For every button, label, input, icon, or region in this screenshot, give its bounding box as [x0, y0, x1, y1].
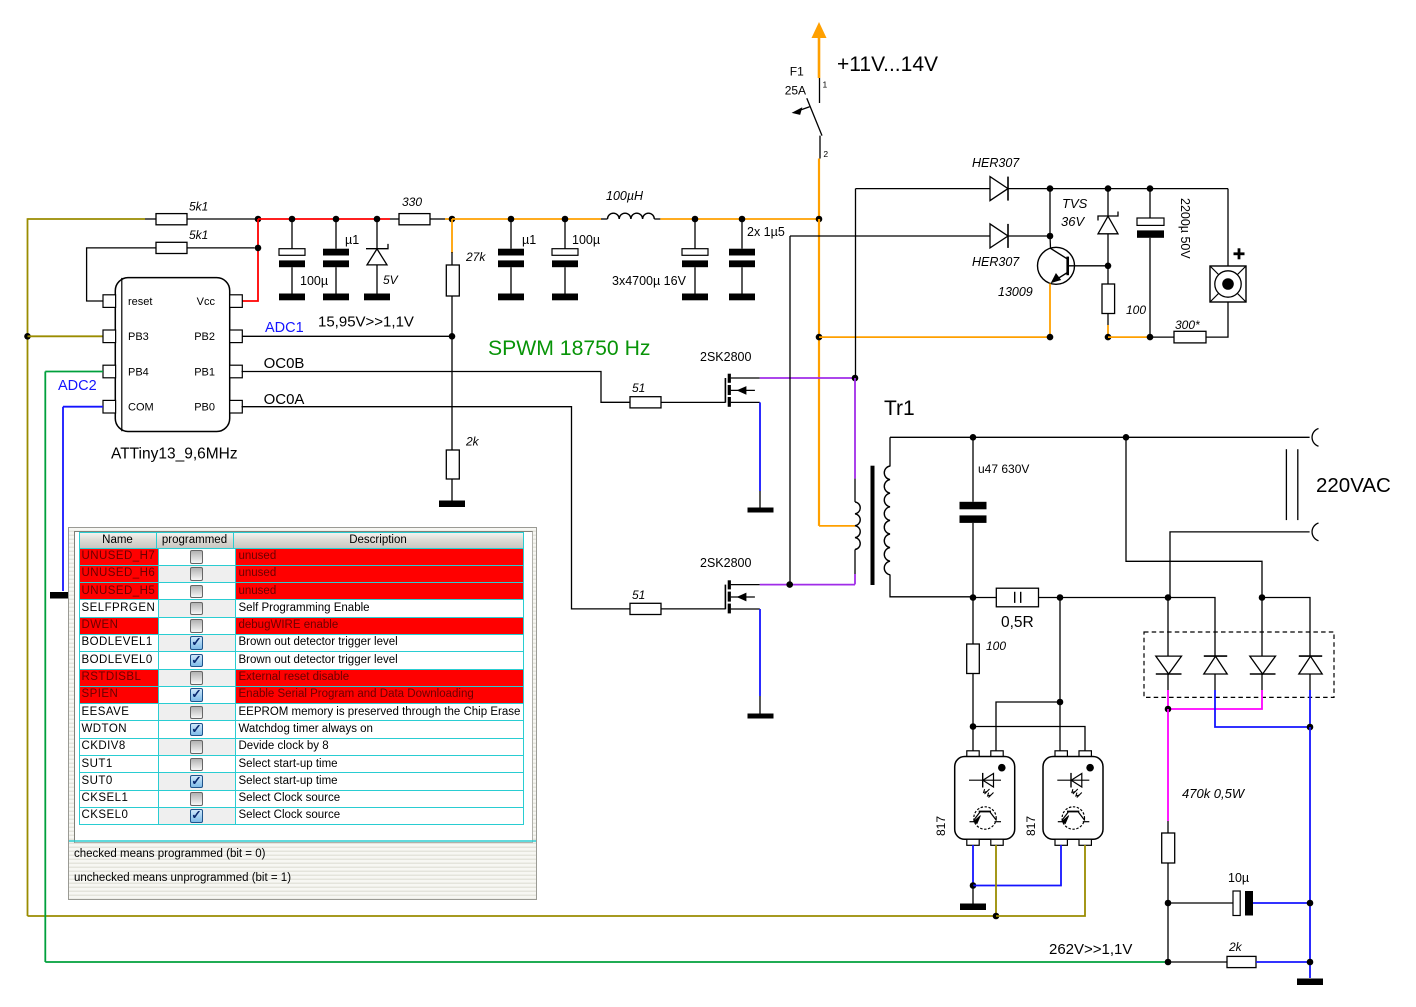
- wire lead into R1: [145, 218, 156, 220]
- terminal output plus: [1210, 266, 1246, 302]
- wire to shunt: [973, 597, 996, 599]
- wire R2 right lead: [187, 247, 255, 249]
- wire Q2 source to ground: [759, 696, 761, 714]
- wire R1 to node V15: [187, 218, 258, 220]
- node emitter rail junction: [1047, 334, 1054, 341]
- pin PB2 of U1: [230, 330, 243, 343]
- resistor R12 470k: [1162, 833, 1175, 863]
- svg-text:25A: 25A: [785, 84, 806, 98]
- wire R2 left lead to reset pin: [87, 248, 156, 301]
- wire opto node to U2 pin1: [972, 727, 974, 751]
- resistor R8 100: [1102, 284, 1115, 314]
- IC U1 ATTiny13 body: [115, 278, 229, 432]
- transistor Q1 2SK2800: [725, 374, 759, 407]
- node opto ground junction: [970, 882, 977, 889]
- svg-text:2x 1µ5: 2x 1µ5: [747, 225, 785, 239]
- node DC plus junction: [1165, 706, 1172, 713]
- ground below COM: [50, 592, 76, 599]
- svg-text:220VAC: 220VAC: [1316, 474, 1391, 497]
- node opto LED junction: [970, 723, 977, 730]
- wire blue R13 to minus bus: [1256, 961, 1310, 963]
- svg-text:ADC2: ADC2: [58, 378, 97, 394]
- wire purple Q1 drain: [760, 377, 855, 379]
- resistor R11 100: [967, 644, 980, 674]
- switch F1 25A: [793, 78, 822, 159]
- wire bottom row to D2: [790, 235, 990, 237]
- svg-text:100µ: 100µ: [572, 233, 600, 247]
- wire red vertical to Vcc: [242, 219, 259, 301]
- wire orange F1 to rail: [818, 159, 820, 220]
- svg-text:PB1: PB1: [194, 366, 215, 378]
- svg-text:817: 817: [1024, 816, 1038, 836]
- wire down to U3 pin1: [1059, 702, 1061, 751]
- pin PB0 of U1: [230, 400, 243, 413]
- ground below Q2: [748, 714, 774, 719]
- node shunt left junction: [970, 594, 977, 601]
- wire orange node A down to R4: [451, 219, 453, 253]
- wire olive vertical left bus: [27, 218, 29, 916]
- wire R4 to node ADC1: [451, 296, 453, 336]
- pin Vcc of U1: [230, 295, 243, 308]
- wire bridge top net right: [1168, 598, 1215, 657]
- node junction C3: [508, 216, 515, 223]
- svg-text:330: 330: [402, 195, 422, 209]
- wire ADC1 from PB2: [242, 335, 453, 337]
- wire into R3 330: [390, 218, 399, 220]
- wire battery rail to terminal: [1227, 189, 1229, 266]
- svg-text:51: 51: [632, 381, 645, 395]
- svg-text:2SK2800: 2SK2800: [700, 350, 751, 364]
- zener TVS 36V: [1098, 212, 1118, 266]
- wire AC2 from connector: [1170, 532, 1310, 598]
- node C junction: [1057, 594, 1064, 601]
- capacitor C9 10u: [1168, 891, 1253, 916]
- wire secondary top rail: [890, 436, 1310, 438]
- inductor L1 100uH: [608, 213, 655, 219]
- plug prongs 220VAC: [1286, 449, 1297, 520]
- label plus of terminal: [1234, 248, 1245, 259]
- resistor R5 2k: [446, 450, 459, 479]
- node junction C2: [333, 216, 340, 223]
- node junction zener: [374, 216, 381, 223]
- svg-text:470k 0,5W: 470k 0,5W: [1182, 786, 1246, 801]
- wire cross link to U2 anode: [996, 702, 1060, 751]
- capacitor C2 u1: [323, 219, 349, 300]
- node C9 minus junction: [1307, 900, 1314, 907]
- svg-text:TVS: TVS: [1062, 196, 1088, 211]
- wire AC1 to bridge: [1261, 598, 1263, 657]
- node junction C4: [562, 216, 569, 223]
- node D1/TVS junction: [1047, 185, 1054, 192]
- svg-text:262V>>1,1V: 262V>>1,1V: [1049, 941, 1132, 958]
- node C7 bottom junction: [1147, 334, 1154, 341]
- wire primary top lead: [854, 479, 856, 502]
- wire green left vertical: [44, 372, 46, 963]
- node bridge AC2 junction: [1165, 594, 1172, 601]
- svg-text:10µ: 10µ: [1228, 871, 1249, 885]
- svg-text:µ1: µ1: [522, 233, 536, 247]
- wire blue from COM pin: [63, 406, 103, 408]
- wire purple primary to Q2 drain: [854, 574, 856, 584]
- svg-text:ADC1: ADC1: [265, 320, 304, 336]
- wire blue D9 down: [1309, 690, 1311, 727]
- svg-text:5V: 5V: [383, 273, 399, 287]
- resistor R10 0,5R shunt: [996, 588, 1038, 607]
- svg-text:5k1: 5k1: [189, 228, 208, 242]
- wire bridge AC1 to D9: [1262, 598, 1310, 657]
- svg-text:5k1: 5k1: [189, 200, 208, 214]
- connector AC top: [1312, 429, 1318, 447]
- pin reset of U1: [103, 295, 116, 308]
- transformer Tr1 primary winding: [855, 502, 860, 550]
- core of Tr1: [871, 466, 875, 585]
- svg-text:2k: 2k: [465, 435, 480, 449]
- svg-text:13009: 13009: [998, 285, 1033, 299]
- wire magenta D6 cathode: [1167, 690, 1169, 709]
- wire olive link to U3: [996, 845, 1085, 916]
- wire orange supply rail: [452, 218, 601, 220]
- node PB3 junction on olive bus: [24, 333, 31, 340]
- svg-text:2k: 2k: [1228, 940, 1243, 954]
- svg-text:u47 630V: u47 630V: [978, 462, 1029, 476]
- node B junction: [1105, 263, 1112, 270]
- node A junction: [449, 216, 456, 223]
- diode D8: [1250, 656, 1276, 690]
- svg-text:15,95V>>1,1V: 15,95V>>1,1V: [318, 314, 414, 331]
- wire magenta D8 link: [1168, 690, 1262, 709]
- svg-text:reset: reset: [128, 296, 152, 308]
- svg-text:COM: COM: [128, 402, 154, 414]
- wire node D to node E: [1167, 903, 1169, 962]
- node junction C1: [289, 216, 296, 223]
- resistor R6 51: [630, 397, 661, 408]
- node Q2 drain junction: [786, 581, 793, 588]
- resistor R1 5k1: [156, 214, 187, 225]
- svg-text:µ1: µ1: [345, 233, 359, 247]
- wire top row to D1: [856, 188, 991, 190]
- wire olive bottom run to optocouplers: [28, 915, 997, 917]
- wire olive U2 collector down: [995, 845, 997, 916]
- node R8 rail junction: [1105, 334, 1112, 341]
- svg-text:+11V...14V: +11V...14V: [837, 53, 938, 76]
- node Q3 collector junction: [1047, 233, 1054, 240]
- node cap rail junction: [1147, 185, 1154, 192]
- wire opto ground stub: [972, 886, 974, 904]
- wire orange rail to 300R: [1108, 336, 1150, 338]
- bridge dashed box: [1144, 632, 1334, 697]
- node V15 junction: [255, 216, 262, 223]
- diode D7: [1204, 656, 1227, 690]
- svg-text:1: 1: [823, 80, 828, 90]
- wire purple Q1 drain to primary: [854, 378, 856, 479]
- resistor R9 300*: [1174, 331, 1206, 343]
- svg-text:100µ: 100µ: [300, 274, 328, 288]
- wire blue opto link: [973, 845, 1061, 886]
- wire AC2 to D6: [1167, 598, 1169, 657]
- transformer Tr1 secondary winding: [884, 466, 890, 575]
- optocoupler U2 817: [955, 751, 1015, 846]
- wire R9 to output terminal: [1206, 302, 1228, 337]
- wire green from PB4 pin: [45, 371, 103, 373]
- svg-text:0,5R: 0,5R: [1001, 614, 1034, 631]
- svg-text:3x4700µ 16V: 3x4700µ 16V: [612, 274, 687, 288]
- capacitor C3 u1: [498, 219, 524, 300]
- pin PB4 of U1: [103, 365, 116, 378]
- diode D2 HER307: [990, 224, 1008, 248]
- ground opto: [960, 904, 986, 911]
- svg-text:Vcc: Vcc: [197, 296, 216, 308]
- resistor R7 51: [630, 603, 661, 614]
- wire rail to TVS: [1107, 189, 1109, 216]
- wire bottom rail to 300R: [1150, 336, 1174, 338]
- svg-text:PB4: PB4: [128, 366, 149, 378]
- wire node C to bridge net: [1060, 597, 1168, 599]
- node R13 minus junction: [1307, 959, 1314, 966]
- pin COM of U1: [103, 400, 116, 413]
- wire R7 to Q2 gate: [661, 608, 725, 610]
- node u47 top junction: [970, 434, 977, 441]
- node rail/F1 junction: [816, 216, 823, 223]
- ground below Q1: [748, 508, 774, 513]
- wire blue D7 link: [1215, 690, 1310, 727]
- wire R12 to node D: [1167, 863, 1169, 903]
- wire node shunt-left down to R11: [972, 598, 974, 645]
- wire blue Q1 source: [759, 402, 761, 491]
- pin PB3 of U1: [103, 330, 116, 343]
- wire OC0A from PB0: [242, 407, 631, 609]
- wire blue vertical to ground: [62, 407, 64, 591]
- svg-text:51: 51: [632, 588, 645, 602]
- resistor R13 2k: [1168, 956, 1256, 967]
- svg-text:OC0A: OC0A: [264, 391, 305, 408]
- svg-text:27k: 27k: [465, 250, 486, 264]
- svg-text:100: 100: [1126, 303, 1146, 317]
- svg-text:2: 2: [823, 149, 828, 159]
- wire orange stub at node A: [445, 218, 452, 220]
- zener diode D5 5V: [364, 219, 390, 300]
- capacitor C4 100u: [552, 219, 578, 300]
- wire secondary bottom lead: [890, 575, 973, 597]
- pin PB1 of U1: [230, 365, 243, 378]
- node junction C5: [692, 216, 699, 223]
- wire D1 to battery rail: [1008, 188, 1228, 190]
- svg-text:PB3: PB3: [128, 331, 149, 343]
- svg-text:2200µ 50V: 2200µ 50V: [1178, 198, 1192, 259]
- svg-text:36V: 36V: [1061, 214, 1085, 229]
- svg-text:OC0B: OC0B: [264, 355, 305, 372]
- node Q1 drain junction: [852, 375, 859, 382]
- wire R8 to orange rail: [1107, 314, 1109, 326]
- diode D9: [1299, 656, 1322, 690]
- capacitor C7 2200u 50V: [1137, 189, 1164, 338]
- node E junction: [1165, 959, 1172, 966]
- svg-text:300*: 300*: [1175, 318, 1200, 332]
- svg-text:F1: F1: [790, 65, 804, 79]
- diode D1 HER307: [990, 177, 1008, 201]
- wire node ADC1 down to R5: [451, 336, 453, 450]
- wire Q3 base to node B: [1068, 265, 1108, 267]
- svg-text:100: 100: [986, 639, 1006, 653]
- capacitor C5 4700u: [682, 219, 708, 300]
- svg-text:Tr1: Tr1: [884, 397, 915, 420]
- ground minus bus: [1297, 979, 1323, 986]
- node orange branch junction: [816, 334, 823, 341]
- optocoupler U3 817: [1043, 751, 1103, 846]
- node TVS rail junction: [1105, 185, 1112, 192]
- node opto LED junction 2: [1057, 699, 1064, 706]
- diode D6: [1156, 656, 1182, 690]
- node bridge AC1 junction: [1259, 594, 1266, 601]
- wire shunt to node C: [1039, 597, 1061, 599]
- wire orange branch to 13009 emitter: [819, 336, 1050, 338]
- svg-text:PB0: PB0: [194, 402, 215, 414]
- wire R6 to Q1 gate: [661, 401, 725, 403]
- svg-text:ATTiny13_9,6MHz: ATTiny13_9,6MHz: [111, 446, 238, 463]
- power arrow +11V..14V: [812, 22, 827, 78]
- ground below R5: [439, 501, 465, 508]
- wire blue C9 to minus bus: [1253, 902, 1310, 904]
- svg-text:2SK2800: 2SK2800: [700, 556, 751, 570]
- wire orange Q3 emitter: [1049, 284, 1051, 338]
- node DC minus junction: [1307, 724, 1314, 731]
- wire opto node to U3 pin2: [973, 727, 1085, 751]
- wire olive to PB3 pin: [28, 335, 104, 337]
- wire olive from left edge to R1: [28, 218, 146, 220]
- node D junction: [1165, 900, 1172, 907]
- wire red supply segment: [258, 218, 390, 220]
- capacitor C6 1u5: [729, 219, 755, 300]
- node junction C6: [739, 216, 746, 223]
- wire node C down: [1059, 598, 1061, 703]
- wire magenta to R12: [1167, 709, 1169, 821]
- transistor Q2 2SK2800: [725, 580, 759, 613]
- resistor R3 330: [399, 214, 430, 225]
- resistor R2 5k1: [156, 242, 187, 253]
- wire green long bottom to 262V divider: [45, 961, 1168, 963]
- wire R3 to node A: [430, 218, 445, 220]
- capacitor C1 100u electrolytic: [279, 219, 305, 300]
- svg-text:817: 817: [934, 816, 948, 836]
- wire purple Q2 drain: [760, 584, 855, 586]
- wire secondary top lead: [889, 437, 891, 466]
- wire lead to R4: [451, 252, 453, 266]
- wire Q2 drain to HER307 bottom row: [789, 236, 791, 585]
- svg-text:HER307: HER307: [972, 156, 1020, 170]
- node olive junction: [993, 913, 1000, 920]
- svg-text:HER307: HER307: [972, 255, 1020, 269]
- wire blue minus bus: [1309, 727, 1311, 978]
- wire orange main vertical to transformer tap: [818, 219, 820, 526]
- svg-text:SPWM 18750 Hz: SPWM 18750 Hz: [488, 337, 651, 360]
- wire lead into R12: [1167, 821, 1169, 833]
- wire orange rail after L1: [654, 218, 660, 220]
- wire top rail to collector node: [1049, 189, 1051, 236]
- wire node B to R8: [1107, 266, 1109, 284]
- connector AC bottom: [1312, 523, 1318, 541]
- transistor Q3 13009: [1038, 236, 1075, 284]
- wire R11 to opto node: [972, 674, 974, 727]
- wire primary bottom lead: [854, 550, 856, 575]
- wire blue Q2 source: [759, 609, 761, 696]
- wire blue U2 emitter down: [972, 845, 974, 886]
- node junction red/R2: [255, 245, 262, 252]
- wire D2 to Q3 collector node: [1008, 235, 1050, 237]
- wire OC0B from PB1: [242, 372, 631, 403]
- svg-text:PB2: PB2: [194, 331, 215, 343]
- capacitor C8 u47 630V: [960, 437, 987, 597]
- wire R5 to ground: [451, 479, 453, 501]
- wire AC1 routing: [1126, 437, 1262, 597]
- node ADC1 junction: [449, 333, 456, 340]
- node AC1 junction: [1123, 434, 1130, 441]
- svg-text:100µH: 100µH: [606, 189, 644, 203]
- wire Q1 drain to HER307 top row: [855, 189, 857, 378]
- wire orange transformer centre tap: [819, 525, 855, 527]
- wire Q1 source to ground: [759, 491, 761, 508]
- resistor R4 27k: [446, 265, 459, 296]
